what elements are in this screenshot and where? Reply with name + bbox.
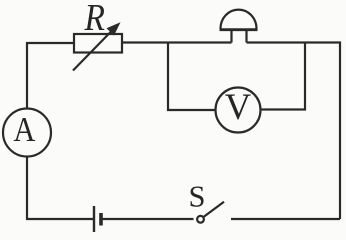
svg-text:S: S — [189, 180, 206, 214]
svg-text:R: R — [84, 0, 105, 38]
svg-text:A: A — [13, 111, 35, 149]
svg-text:V: V — [225, 86, 251, 127]
